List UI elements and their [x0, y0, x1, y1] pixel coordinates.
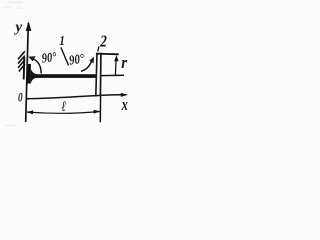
dimension line l — [27, 112, 100, 114]
disk 2: top edge + r top tick — [96, 53, 119, 56]
rod fillet bottom — [31, 77, 38, 82]
y-axis arrowhead — [26, 21, 32, 31]
svg-text:y: y — [13, 19, 22, 35]
r bottom tick (rod level, right of disk) — [102, 74, 125, 76]
right extension line (disk to dimension) — [99, 97, 101, 123]
svg-text:ℓ: ℓ — [62, 99, 67, 115]
svg-text:1: 1 — [59, 34, 64, 49]
arc1 arrowhead — [28, 56, 35, 61]
disk 2: left edge — [96, 53, 97, 97]
90° arc at wall — [31, 58, 41, 73]
svg-text:0: 0 — [18, 89, 23, 104]
y-axis — [26, 23, 29, 122]
l arrowhead right — [94, 110, 101, 114]
90° arc at disk — [81, 61, 92, 72]
svg-text:90°: 90° — [68, 51, 85, 68]
rod 1 (horizontal bar) — [30, 74, 98, 78]
svg-text:x: x — [121, 95, 128, 114]
svg-text:90°: 90° — [41, 49, 57, 65]
leader line for 1 — [61, 47, 69, 65]
x-axis — [26, 95, 126, 99]
leader line for 2 — [98, 46, 99, 51]
arc2 arrowhead — [89, 57, 94, 63]
wall hatching — [18, 51, 25, 71]
disk 2: right edge — [99, 53, 102, 97]
scan smudge bottom-left — [5, 125, 17, 127]
svg-text:r: r — [121, 53, 127, 72]
l arrowhead left — [26, 110, 33, 114]
scan smudge top-left — [2, 2, 23, 9]
rod end clamp bar — [27, 64, 31, 84]
wall line — [23, 57, 26, 80]
dimension r arrow — [114, 58, 117, 75]
svg-text:2: 2 — [99, 32, 106, 51]
x-axis arrowhead — [121, 93, 128, 97]
rod fillet top — [31, 69, 38, 74]
